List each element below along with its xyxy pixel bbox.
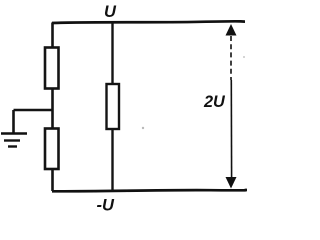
svg-text:U: U bbox=[104, 3, 117, 21]
svg-text:2U: 2U bbox=[203, 93, 226, 111]
svg-text:-U: -U bbox=[97, 197, 115, 215]
